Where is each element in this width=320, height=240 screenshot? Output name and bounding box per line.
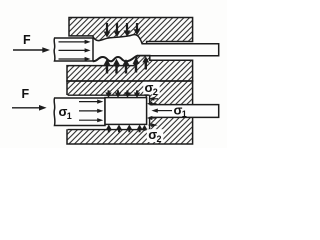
svg-text:1: 1 [182, 109, 187, 119]
sigma1 leader arrow in rod [158, 110, 173, 112]
extruded rod (top assembly) [138, 44, 219, 56]
billet internal arrow 2 [59, 49, 86, 51]
bore bottom edge [68, 129, 150, 131]
force arrow F (top) [13, 49, 44, 51]
svg-text:1: 1 [67, 111, 72, 121]
die face right (above orifice) [149, 95, 151, 104]
svg-text:F: F [22, 87, 30, 101]
billet internal arrow 3 [59, 58, 86, 60]
container block (bottom assembly) [67, 81, 193, 144]
die face right (below orifice) [149, 117, 151, 129]
force arrow F (bottom) [12, 107, 40, 109]
wavy lower die surface (two humps) [93, 56, 138, 62]
container bore (white) [66, 95, 149, 129]
sigma2 bottom leader arrow [149, 124, 152, 126]
element right-side arrows (pointing left) [152, 103, 157, 105]
stress element [105, 98, 147, 125]
billet internal arrow 1 [59, 41, 86, 43]
upper die block (top assembly) [69, 18, 193, 44]
sigma2 top leader arrow [154, 98, 158, 100]
svg-text:2: 2 [157, 134, 162, 144]
sigma2 bottom label patch [147, 129, 164, 142]
element bottom pressure arrows (up) [106, 125, 147, 133]
lower die block (top assembly) [67, 56, 193, 82]
extruded rod (bottom assembly) [150, 105, 219, 118]
die pressure arrows on upper contour (down) [104, 23, 140, 37]
die pressure arrows on lower contour (up) [104, 57, 149, 74]
sigma2 top label patch [143, 82, 160, 95]
element top pressure arrows (down) [106, 90, 150, 97]
punch (bottom assembly) [54, 98, 105, 126]
svg-text:2: 2 [153, 87, 158, 97]
bore top edge [68, 94, 150, 96]
svg-text:F: F [23, 33, 31, 47]
rod slot (white) [149, 105, 218, 117]
billet (top assembly) [54, 38, 93, 61]
punch arrows toward element [79, 101, 98, 103]
